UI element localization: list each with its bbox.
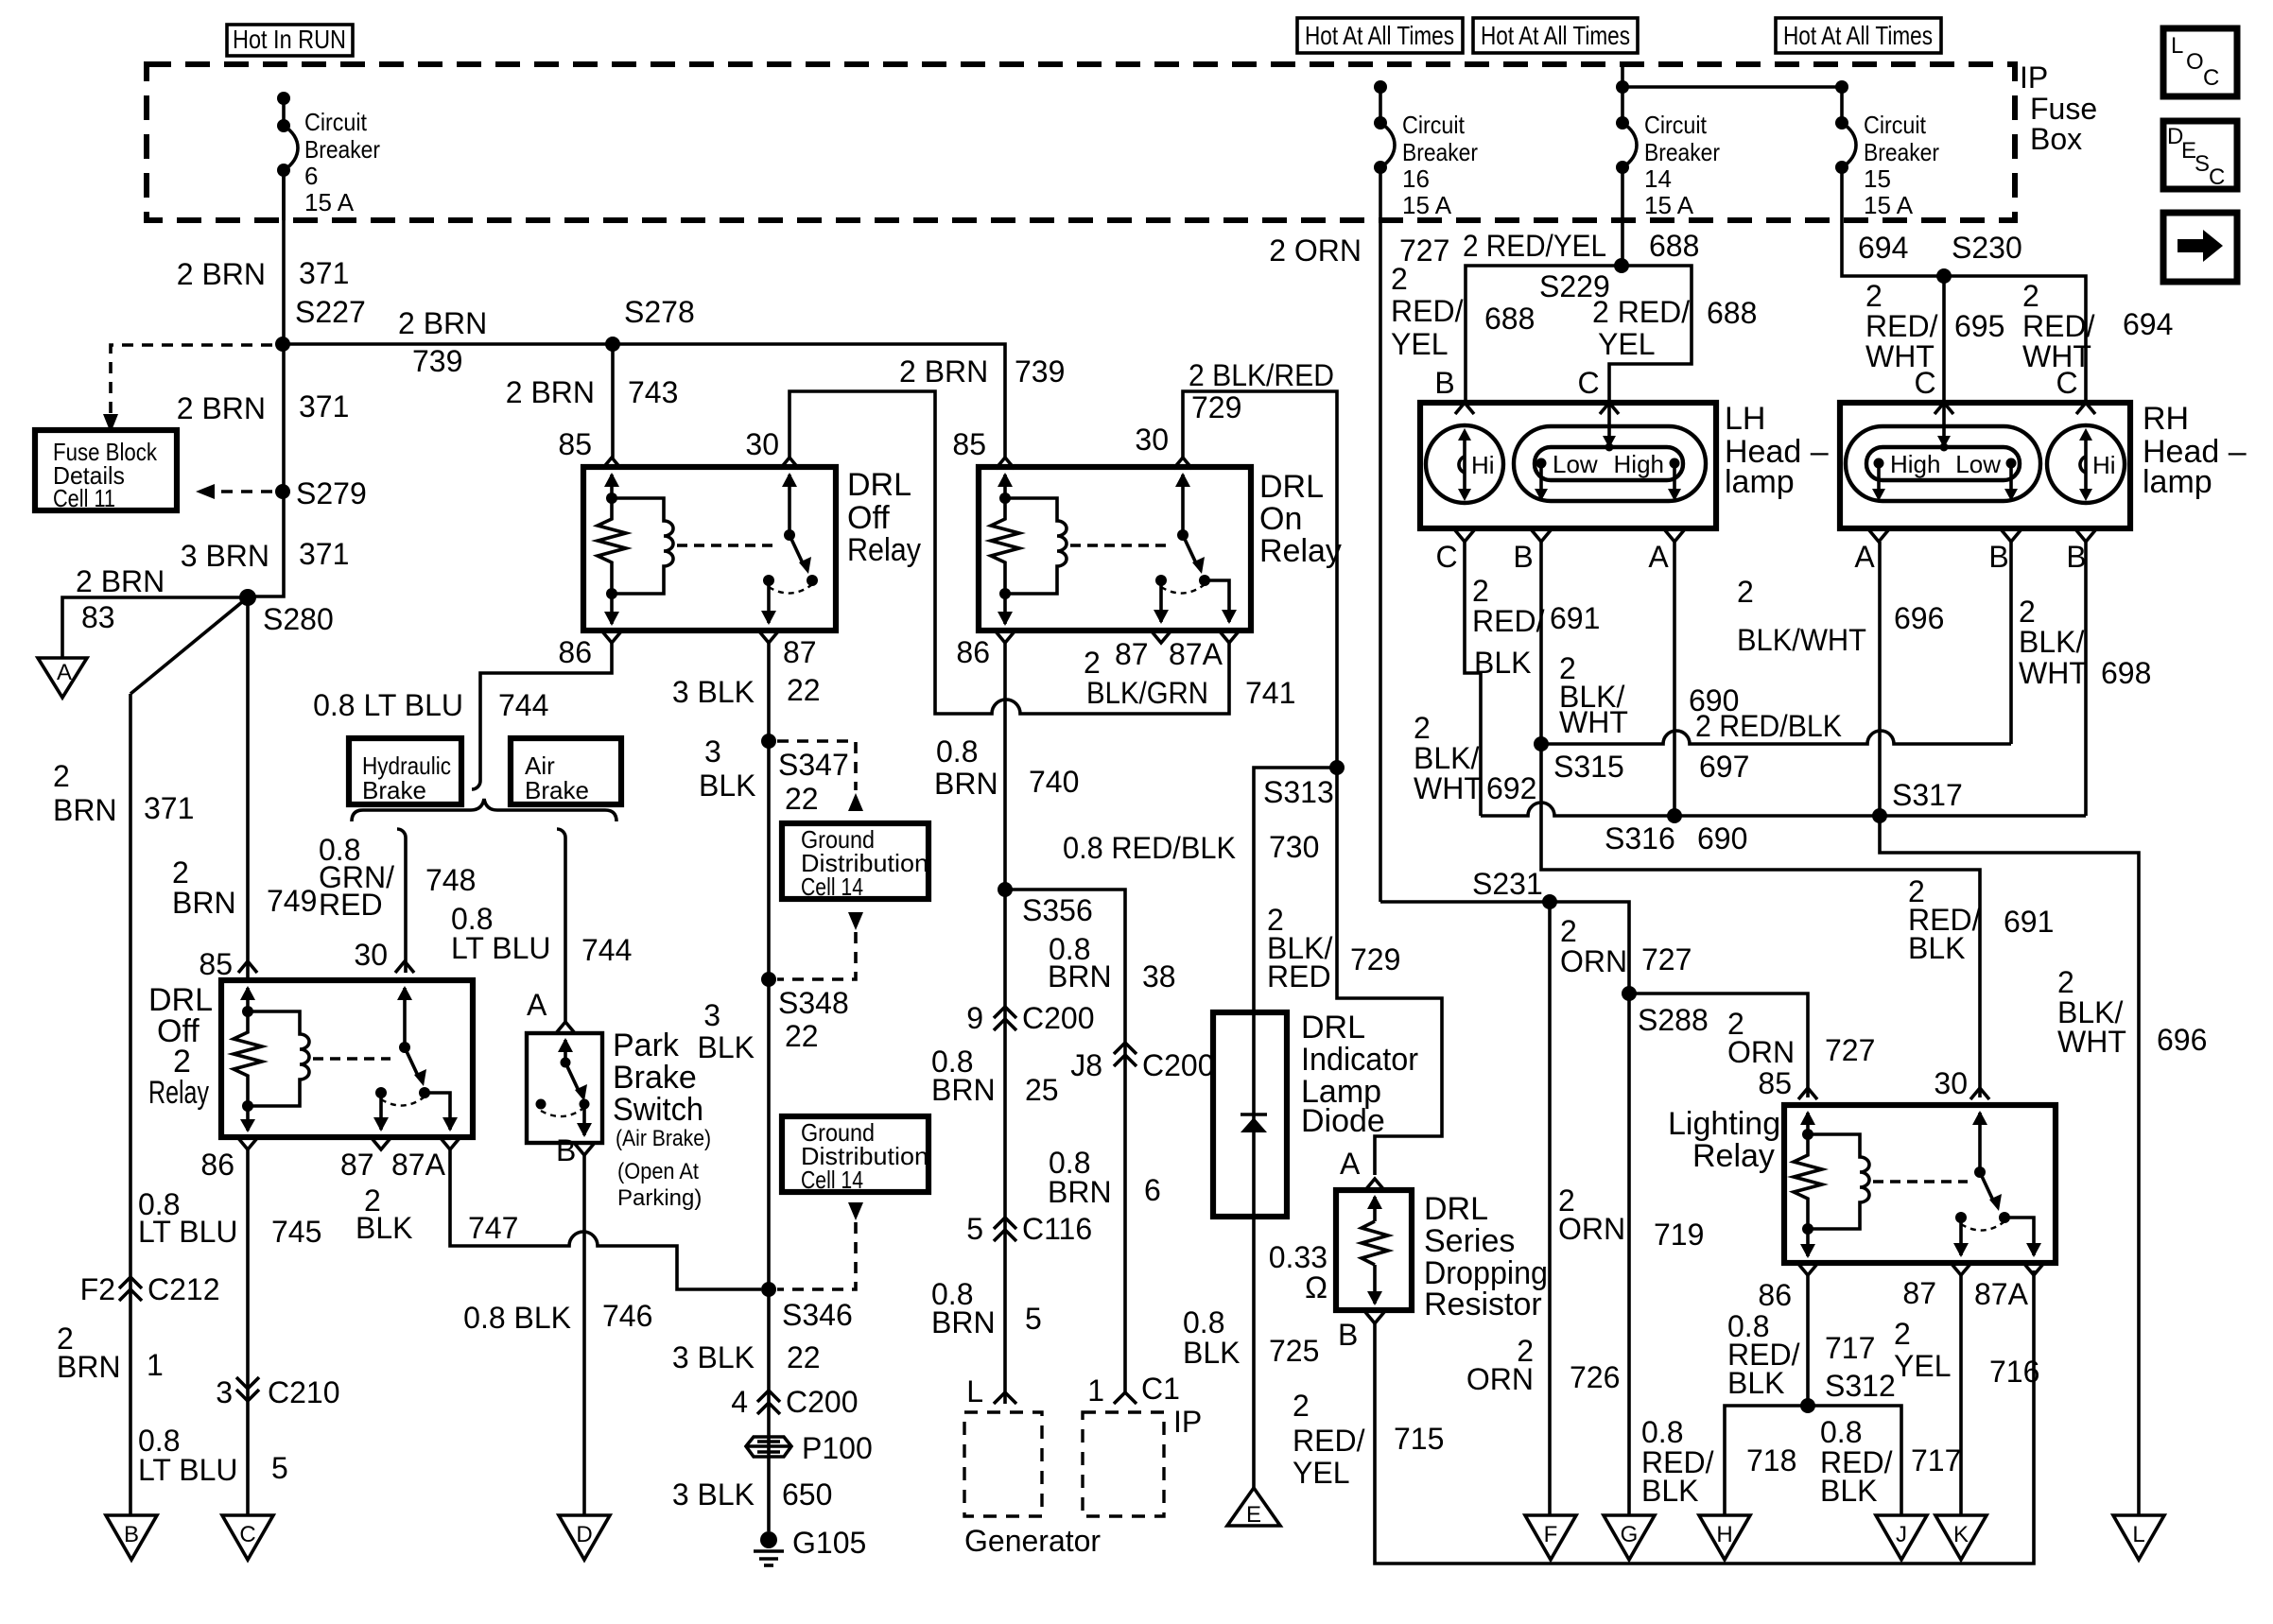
svg-text:727: 727	[1641, 942, 1692, 976]
svg-text:2: 2	[1865, 279, 1883, 313]
splice S312	[1800, 1398, 1815, 1413]
svg-text:2: 2	[1737, 575, 1754, 609]
wire 2 ORN 727 S231 to S288	[1560, 914, 1692, 978]
svg-text:BLK/GRN: BLK/GRN	[1086, 676, 1208, 710]
wire 2 BLK/WHT 696 S317 to connector L	[1880, 816, 2207, 1515]
svg-text:87A: 87A	[1974, 1277, 2029, 1311]
svg-text:BRN: BRN	[57, 1350, 121, 1384]
svg-text:Fuse: Fuse	[2030, 92, 2097, 126]
IP Fuse Box dashed outline	[147, 64, 2015, 220]
dashed reference Ground Distribution to S346	[777, 1202, 863, 1289]
wire 2 RED/BLK 691 labels (LH B)	[1472, 542, 1600, 744]
svg-text:YEL: YEL	[1391, 327, 1448, 361]
svg-text:Low: Low	[1553, 450, 1598, 478]
connector C116 pin 5	[966, 1212, 1092, 1246]
svg-text:2: 2	[1894, 1317, 1911, 1351]
pin letters B C (LH top)	[1434, 366, 1599, 400]
svg-text:Parking): Parking)	[617, 1185, 702, 1211]
splice S346	[672, 1282, 853, 1374]
pin letters C C (RH top)	[1914, 366, 2077, 400]
svg-text:30: 30	[1934, 1066, 1968, 1100]
DRL Off 2 relay coil branch	[234, 986, 309, 1132]
IP dashed box	[1083, 1405, 1202, 1516]
svg-text:3: 3	[216, 1375, 233, 1409]
svg-text:1: 1	[147, 1348, 164, 1382]
svg-text:85: 85	[558, 427, 592, 461]
LH Low filament terminal	[1535, 450, 1598, 501]
svg-text:RED: RED	[319, 888, 383, 922]
svg-text:Cell 14: Cell 14	[801, 1166, 863, 1194]
svg-text:743: 743	[628, 375, 678, 409]
svg-text:A: A	[1648, 540, 1669, 574]
svg-text:692: 692	[1486, 771, 1536, 805]
DRL Off relay coil branch (pin 85/86)	[598, 473, 673, 626]
svg-text:BLK: BLK	[1908, 931, 1965, 965]
svg-text:Relay: Relay	[847, 532, 921, 568]
wire 0.8 RED/BLK 717 lighting 86 to S312	[1727, 1275, 1896, 1406]
RH C pin feed into oval	[1937, 403, 1951, 452]
wire 2 BLK/WHT 698 RH B Hi down to 690 row	[2019, 542, 2151, 816]
svg-text:0.8: 0.8	[1183, 1305, 1224, 1339]
svg-text:6: 6	[1144, 1173, 1161, 1207]
dashed reference Ground Distribution to S348	[777, 912, 863, 979]
DRL Off 2 relay pin chevrons	[238, 961, 460, 1149]
svg-text:Circuit: Circuit	[1402, 111, 1466, 139]
svg-text:High: High	[1614, 450, 1664, 478]
circuit breaker 14 15A	[1616, 64, 1842, 220]
wire 2 BLK/WHT 696 RH A down to S317	[1737, 542, 1944, 816]
svg-text:5: 5	[1025, 1302, 1042, 1336]
pin labels 85 30 86 87 87A (DRL On)	[952, 423, 1223, 671]
svg-text:S312: S312	[1825, 1369, 1896, 1403]
svg-text:C116: C116	[1022, 1212, 1092, 1246]
svg-text:Brake: Brake	[362, 776, 426, 804]
svg-text:C200: C200	[1022, 1001, 1095, 1035]
DESC page-reference box	[2163, 121, 2237, 190]
LH low/high bulb oval	[1514, 426, 1706, 501]
svg-text:Hot At All Times: Hot At All Times	[1481, 21, 1630, 50]
svg-text:86: 86	[200, 1148, 234, 1182]
DRL Off relay switch (pins 30/87)	[761, 473, 818, 625]
svg-text:3: 3	[704, 734, 721, 769]
DRL On Relay title	[1259, 469, 1342, 569]
pin labels 85 30 86 87 (top relay)	[558, 427, 816, 669]
svg-text:C: C	[239, 1522, 255, 1547]
svg-text:87A: 87A	[1169, 637, 1223, 671]
svg-text:C: C	[2056, 366, 2077, 400]
svg-text:86: 86	[956, 635, 990, 669]
svg-text:715: 715	[1394, 1422, 1444, 1456]
LH headlamp title	[1725, 401, 1829, 500]
wire 2 ORN 727 CB16 down to S231	[1269, 220, 1449, 902]
svg-text:744: 744	[581, 933, 632, 967]
connector D triangle	[559, 1515, 610, 1560]
svg-text:DRL: DRL	[1259, 469, 1324, 505]
svg-text:2: 2	[1560, 914, 1577, 948]
splice S316	[1605, 808, 1747, 855]
svg-text:High: High	[1890, 450, 1940, 478]
wire 0.8 BRN 740 DRL On 86 down to generator L	[934, 643, 1079, 1404]
svg-text:RH: RH	[2143, 401, 2189, 437]
splice S279	[275, 476, 367, 510]
svg-text:696: 696	[2157, 1023, 2207, 1057]
svg-text:749: 749	[267, 884, 317, 918]
banner Hot In RUN	[227, 25, 353, 56]
generator pin L	[966, 1374, 1016, 1408]
svg-text:2 RED/BLK: 2 RED/BLK	[1695, 709, 1842, 743]
dashed arrow S279 to Fuse Block Details	[196, 484, 272, 499]
LH pin chevrons	[1455, 403, 1684, 542]
DRL On relay switch	[1154, 473, 1237, 624]
wire 0.8 BLK 746 PBS-B to connector D	[463, 1155, 652, 1515]
svg-text:Circuit: Circuit	[1864, 111, 1927, 139]
svg-text:741: 741	[1245, 676, 1295, 710]
connector B triangle	[106, 1515, 157, 1560]
svg-text:727: 727	[1825, 1033, 1875, 1067]
svg-text:371: 371	[144, 791, 194, 825]
svg-text:BRN: BRN	[1048, 1175, 1112, 1209]
svg-text:ORN: ORN	[1560, 944, 1627, 978]
svg-text:BLK: BLK	[699, 769, 755, 803]
svg-text:S231: S231	[1472, 867, 1543, 901]
svg-text:C: C	[2203, 65, 2219, 91]
svg-text:A: A	[1340, 1147, 1361, 1181]
svg-text:B: B	[1988, 540, 2008, 574]
svg-text:2 BRN: 2 BRN	[177, 257, 266, 291]
svg-text:0.8: 0.8	[936, 734, 978, 769]
svg-text:2: 2	[172, 855, 189, 890]
svg-text:BLK/: BLK/	[2019, 625, 2084, 659]
svg-text:85: 85	[1758, 1066, 1792, 1100]
svg-text:22: 22	[787, 1340, 821, 1374]
wire 2 RED/BLK 697 row S315 to RH B	[1541, 709, 2011, 784]
svg-text:lamp: lamp	[1725, 464, 1795, 500]
svg-text:718: 718	[1746, 1443, 1796, 1477]
svg-text:lamp: lamp	[2143, 464, 2212, 500]
grommet P100	[746, 1431, 873, 1465]
svg-text:(Air Brake): (Air Brake)	[616, 1126, 711, 1151]
svg-text:695: 695	[1954, 309, 2004, 343]
svg-text:Hot In RUN: Hot In RUN	[233, 25, 346, 54]
svg-text:2 BLK/RED: 2 BLK/RED	[1189, 358, 1334, 392]
svg-text:C: C	[2209, 164, 2225, 190]
pin labels 85 30 (lighting relay)	[1758, 1066, 1968, 1100]
svg-text:2: 2	[2019, 595, 2036, 629]
svg-text:Resistor: Resistor	[1424, 1287, 1542, 1322]
svg-text:S316: S316	[1605, 821, 1675, 855]
DRL Series Dropping Resistor box	[1336, 1190, 1412, 1310]
svg-text:B: B	[556, 1133, 576, 1167]
splice S231	[1472, 867, 1557, 909]
svg-text:Generator: Generator	[964, 1524, 1101, 1558]
svg-text:DRL: DRL	[1424, 1191, 1488, 1227]
svg-text:15 A: 15 A	[304, 188, 355, 216]
svg-text:3 BRN: 3 BRN	[181, 539, 269, 573]
svg-text:15: 15	[1864, 164, 1891, 193]
svg-text:2: 2	[1414, 711, 1431, 745]
wire 2 RED/WHT 694 S230 to RH headlamp C (Hi)	[1944, 276, 2173, 403]
svg-text:694: 694	[1858, 231, 1908, 265]
svg-text:A: A	[57, 660, 72, 685]
svg-text:ORN: ORN	[1727, 1035, 1795, 1069]
svg-text:BLK: BLK	[698, 1030, 755, 1064]
svg-text:0.8 BLK: 0.8 BLK	[463, 1301, 571, 1335]
svg-text:16: 16	[1402, 164, 1430, 193]
wire 2 BLK/WHT 690 row	[1481, 803, 2086, 816]
wire 2 BRN 749 S280 down to DRL Off 2 relay 85	[172, 855, 317, 920]
svg-text:Diode: Diode	[1301, 1103, 1385, 1139]
svg-text:30: 30	[354, 938, 388, 972]
wire label 3 BLK 650	[672, 1477, 833, 1512]
svg-text:BRN: BRN	[934, 767, 998, 801]
RH High filament terminal	[1872, 450, 1940, 501]
svg-text:2 BRN: 2 BRN	[899, 354, 988, 389]
wire S280 diagonal to 371 branch	[130, 597, 248, 694]
svg-text:87A: 87A	[391, 1148, 446, 1182]
svg-text:Breaker: Breaker	[1402, 138, 1478, 166]
svg-text:86: 86	[1758, 1278, 1792, 1312]
svg-text:BRN: BRN	[931, 1305, 996, 1339]
svg-text:691: 691	[2004, 905, 2054, 939]
svg-text:G105: G105	[792, 1526, 866, 1560]
connector K triangle	[1935, 1515, 1987, 1560]
svg-text:38: 38	[1142, 959, 1176, 993]
svg-text:2: 2	[2022, 279, 2039, 313]
svg-text:LT BLU: LT BLU	[451, 931, 551, 965]
svg-text:BLK/: BLK/	[1414, 741, 1479, 775]
svg-text:S280: S280	[263, 602, 334, 636]
svg-text:15 A: 15 A	[1402, 191, 1452, 219]
wire 2 ORN 727 S288 to lighting relay 85	[1629, 993, 1875, 1097]
LH High filament terminal	[1614, 450, 1681, 501]
DRL Series Dropping Resistor title	[1424, 1191, 1548, 1322]
svg-text:IP: IP	[2020, 60, 2048, 95]
svg-text:716: 716	[1989, 1355, 2039, 1389]
svg-text:B: B	[1338, 1318, 1358, 1352]
svg-text:S230: S230	[1952, 231, 2022, 265]
lighting relay dashed link	[1873, 1180, 1968, 1183]
svg-text:740: 740	[1029, 765, 1079, 799]
svg-text:ORN: ORN	[1466, 1362, 1534, 1396]
svg-text:371: 371	[299, 389, 349, 423]
svg-text:Breaker: Breaker	[304, 135, 380, 164]
svg-text:3 BLK: 3 BLK	[672, 1477, 755, 1512]
svg-text:Breaker: Breaker	[1644, 138, 1720, 166]
RH Low filament terminal	[1955, 450, 2018, 501]
svg-text:F2: F2	[80, 1272, 115, 1306]
svg-text:691: 691	[1550, 601, 1600, 635]
svg-text:0.33: 0.33	[1269, 1240, 1327, 1274]
svg-text:688: 688	[1649, 229, 1699, 263]
DRL On relay pin chevrons	[996, 458, 1239, 643]
svg-text:690: 690	[1697, 821, 1747, 855]
RH headlamp title	[2143, 401, 2247, 500]
DRL Off Relay title	[847, 467, 921, 568]
LH headlamp box	[1420, 403, 1716, 528]
svg-text:C: C	[1577, 366, 1599, 400]
svg-text:Breaker: Breaker	[1864, 138, 1939, 166]
wire S231 row	[1380, 902, 1629, 993]
wire 730 S313 to diode	[1254, 768, 1337, 1012]
svg-text:730: 730	[1269, 830, 1319, 864]
svg-text:688: 688	[1484, 302, 1535, 336]
wire 0.8 RED/BLK 38 S356 to J8 C200 and C1	[1005, 831, 1236, 1392]
Fuse Block Details box	[35, 430, 177, 512]
svg-text:O: O	[2186, 49, 2204, 75]
svg-text:2 BRN: 2 BRN	[76, 564, 165, 598]
svg-text:B: B	[1434, 366, 1454, 400]
IP Fuse Box label	[2020, 60, 2097, 156]
splice S280	[239, 589, 334, 636]
svg-text:K: K	[1953, 1522, 1969, 1547]
DRL Off 2 relay switch	[373, 986, 458, 1132]
svg-text:S348: S348	[778, 986, 849, 1020]
circuit breaker 6 15A	[277, 92, 380, 220]
connector C200 pin 4	[731, 1385, 858, 1419]
wire S227 to S278 (2 BRN 739)	[283, 306, 613, 378]
svg-text:LT BLU: LT BLU	[138, 1215, 238, 1249]
wire label 0.8 BRN 25	[931, 1045, 1059, 1107]
splice S348	[698, 972, 849, 1064]
DRL Off Relay (top) box	[583, 467, 836, 631]
wire 0.8 GRN/RED 748 to DRL Off 2 relay 30	[319, 829, 476, 973]
wire 2 BRN 743 S278 to DRL Off 85	[506, 344, 679, 459]
svg-text:87: 87	[1902, 1276, 1936, 1310]
Generator dashed box	[964, 1412, 1101, 1558]
DRL Off 2 Relay (bottom-left) box	[221, 980, 473, 1137]
svg-text:Brake: Brake	[525, 776, 589, 804]
ground G105	[754, 1526, 866, 1565]
next-page arrow box	[2163, 213, 2237, 282]
svg-text:Hi: Hi	[1471, 451, 1495, 479]
svg-text:S: S	[2195, 151, 2210, 177]
svg-text:2: 2	[1084, 646, 1101, 680]
DRL Indicator Lamp Diode box	[1213, 1012, 1287, 1217]
svg-text:BLK: BLK	[356, 1211, 412, 1245]
connector L triangle	[2113, 1515, 2164, 1560]
svg-text:2: 2	[53, 759, 70, 793]
svg-text:2: 2	[2057, 965, 2074, 999]
svg-text:0.8: 0.8	[1820, 1415, 1862, 1449]
svg-text:30: 30	[745, 427, 779, 461]
svg-text:Relay: Relay	[1259, 533, 1342, 569]
RH headlamp box	[1840, 403, 2130, 528]
svg-text:698: 698	[2101, 656, 2151, 690]
svg-text:BLK: BLK	[1183, 1336, 1240, 1370]
svg-text:S288: S288	[1638, 1003, 1709, 1037]
pin label A (dropping resistor)	[1340, 1147, 1384, 1190]
svg-text:6: 6	[304, 162, 318, 190]
svg-text:Park: Park	[613, 1028, 680, 1063]
wire 2 BLK/WHT 690 LH A down to S316	[1559, 542, 1739, 818]
svg-text:3: 3	[703, 998, 720, 1032]
svg-text:S278: S278	[624, 295, 695, 329]
Air Brake box	[511, 738, 621, 804]
banner Hot At All Times 1	[1297, 18, 1463, 53]
svg-text:BLK: BLK	[1820, 1474, 1877, 1508]
wire 2 YEL 716 lighting 87 to connector K	[1894, 1275, 2039, 1515]
wire 0.8 BLK 725 diode to connector E	[1183, 1217, 1319, 1488]
svg-text:2 BRN: 2 BRN	[398, 306, 487, 340]
pin labels 86 87 87A (relay 2)	[200, 1148, 445, 1182]
svg-text:RED/: RED/	[1391, 294, 1464, 328]
svg-text:B: B	[1513, 540, 1533, 574]
svg-text:S227: S227	[295, 295, 366, 329]
svg-text:A: A	[527, 988, 547, 1022]
svg-text:RED/: RED/	[1865, 309, 1938, 343]
RH low/high bulb oval	[1846, 426, 2040, 501]
wire label 2 BRN 83	[76, 564, 165, 634]
splice S313	[1263, 760, 1345, 809]
wire 2 BLK 747 relay2-87A to S346	[356, 1149, 761, 1289]
svg-text:87: 87	[340, 1148, 374, 1182]
Ground Distribution Cell 14 box (upper)	[782, 823, 928, 901]
wire 0.8 RED/BLK 718 S312 to connector H	[1641, 1406, 1808, 1515]
wire 2 BLK/RED 729 S313 down to resistor A	[1267, 768, 1442, 1175]
pin letters C B A (LH bottom)	[1435, 540, 1669, 574]
connector H triangle	[1699, 1515, 1750, 1560]
Lighting Relay title	[1668, 1106, 1780, 1174]
lighting relay pin chevrons	[1798, 1088, 2043, 1275]
svg-text:YEL: YEL	[1598, 327, 1655, 361]
circuit breaker 16 15A	[1374, 80, 1478, 220]
DRL On Relay box	[979, 467, 1251, 631]
svg-text:745: 745	[271, 1215, 321, 1249]
connector A triangle	[38, 658, 87, 698]
svg-text:729: 729	[1350, 942, 1400, 976]
wire 0.8 RED/BLK 717 S312 to connector J	[1808, 1406, 1961, 1515]
svg-text:697: 697	[1699, 750, 1749, 784]
svg-text:2: 2	[1391, 262, 1408, 296]
DRL On relay coil branch	[991, 473, 1067, 626]
splice S317	[1872, 778, 1963, 823]
splice S278	[605, 295, 695, 352]
LH Hi bulb circle	[1426, 425, 1503, 503]
Ground Distribution Cell 14 box (lower)	[782, 1116, 928, 1194]
wire CB14 to S229	[1621, 220, 1624, 266]
wire 2 RED/YEL 688 S229 to LH headlamp C	[1592, 266, 1757, 403]
svg-text:744: 744	[498, 688, 548, 722]
svg-text:C1: C1	[1141, 1372, 1180, 1406]
svg-text:BRN: BRN	[53, 793, 117, 827]
svg-text:G: G	[1621, 1522, 1639, 1547]
svg-text:719: 719	[1654, 1218, 1704, 1252]
Park Brake Switch internals	[536, 1038, 593, 1137]
svg-text:(Open At: (Open At	[617, 1159, 699, 1184]
svg-text:J: J	[1896, 1522, 1907, 1547]
svg-text:650: 650	[782, 1477, 832, 1512]
connector J triangle	[1876, 1515, 1927, 1560]
svg-text:S346: S346	[782, 1298, 853, 1332]
svg-text:Hi: Hi	[2092, 451, 2116, 479]
svg-text:Switch: Switch	[613, 1092, 703, 1128]
svg-text:87: 87	[1115, 637, 1149, 671]
wire 0.8 LT BLU 744 to Park Brake Switch A	[451, 829, 632, 1022]
svg-text:Circuit: Circuit	[304, 108, 368, 136]
svg-text:B: B	[124, 1522, 139, 1547]
pin label A (PBS)	[527, 988, 575, 1033]
wire 2 RED/YEL 715 resistor B to lighting relay 87A	[1293, 1270, 2034, 1564]
wire 697 end RH B low down	[2009, 542, 2013, 744]
svg-text:725: 725	[1269, 1334, 1319, 1368]
connector J8 C200	[1070, 1043, 1214, 1082]
svg-text:E: E	[1246, 1502, 1261, 1528]
svg-text:87: 87	[783, 635, 817, 669]
svg-text:0.8: 0.8	[1641, 1415, 1683, 1449]
wire 2 RED/WHT 695 S230 to RH headlamp C	[1865, 276, 2004, 403]
svg-text:RED: RED	[1267, 959, 1331, 993]
svg-text:Hot At All Times: Hot At All Times	[1783, 21, 1933, 50]
